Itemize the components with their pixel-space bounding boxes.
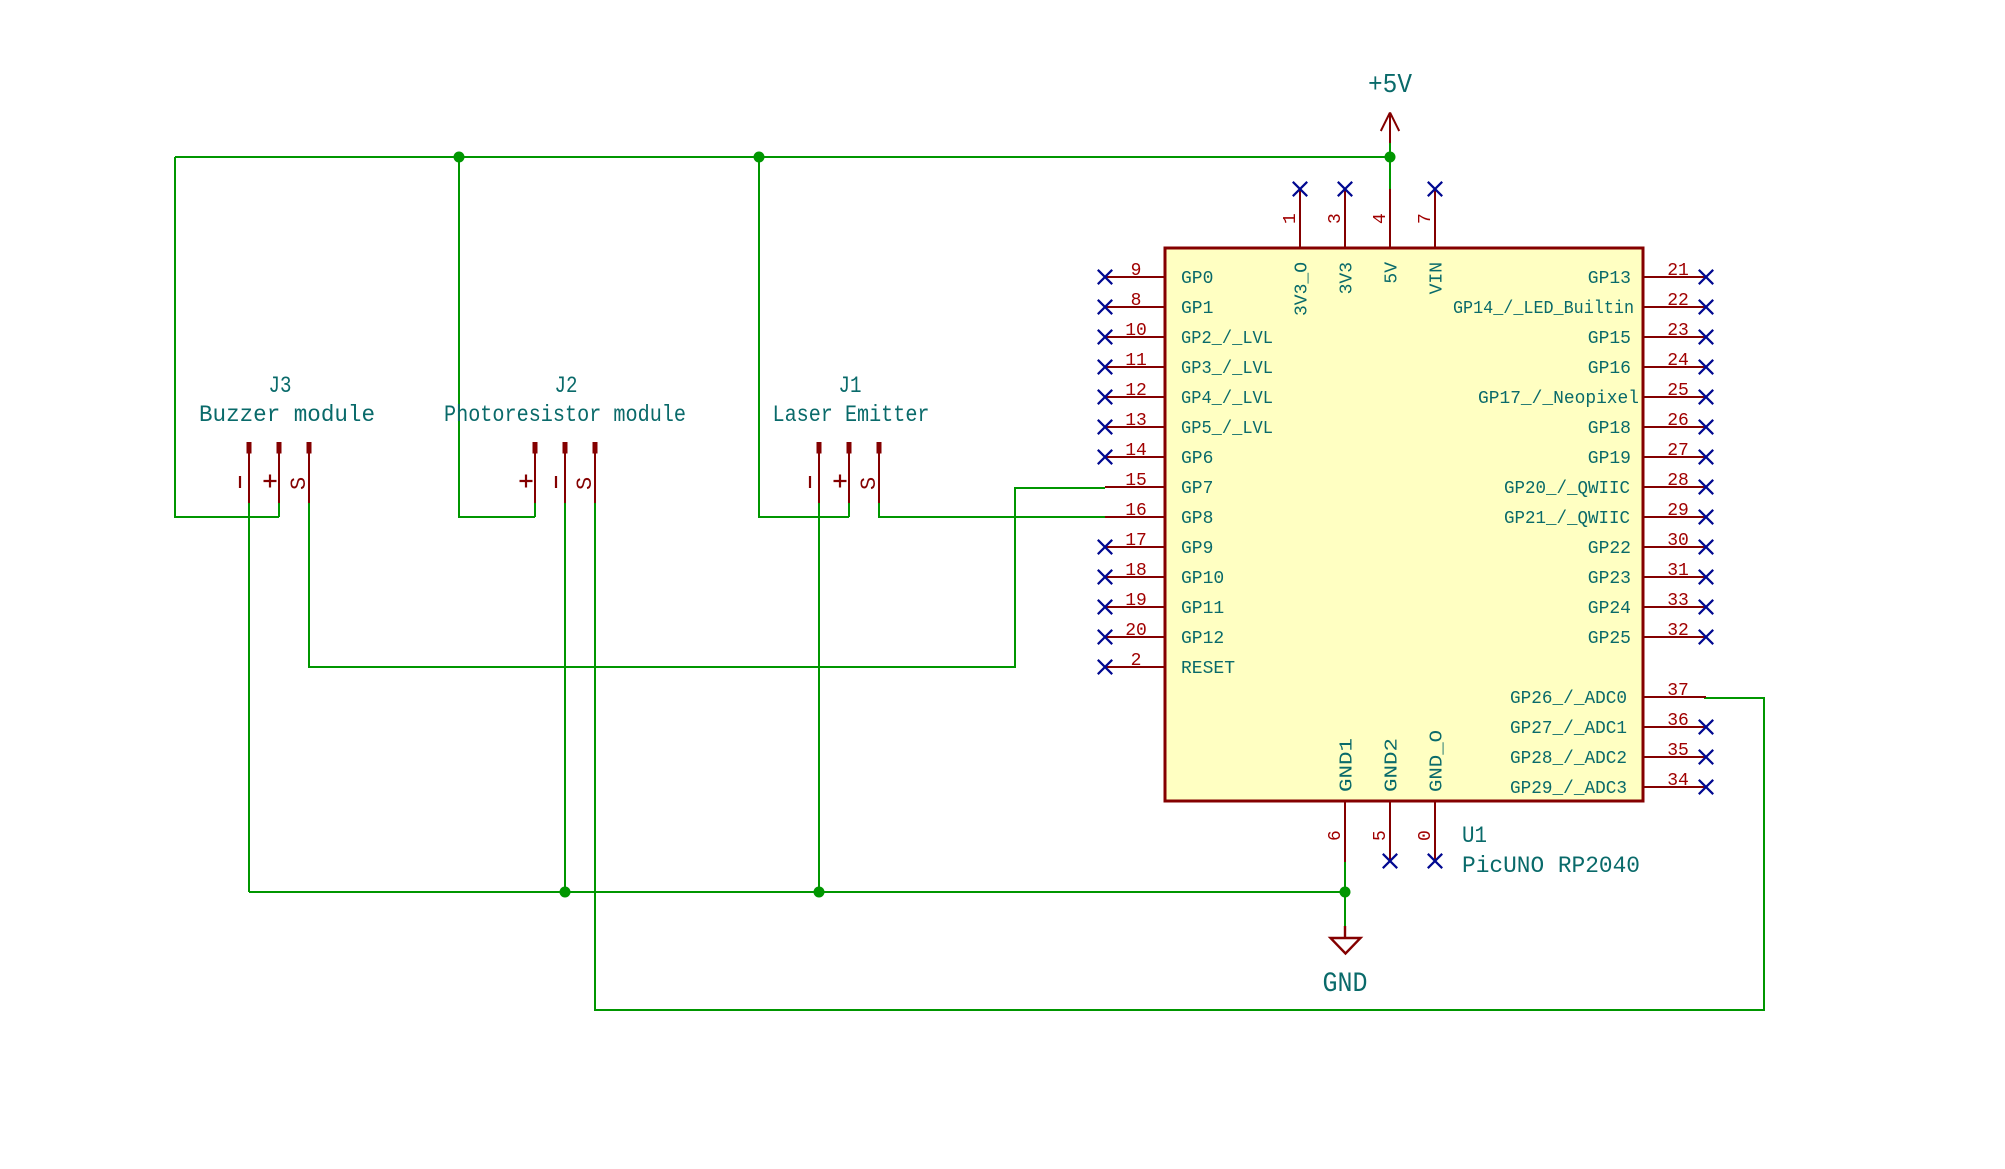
svg-text:3: 3 xyxy=(1326,213,1346,224)
svg-text:15: 15 xyxy=(1125,471,1147,491)
svg-text:30: 30 xyxy=(1667,531,1689,551)
power symbol GND xyxy=(1323,926,1368,1000)
svg-text:13: 13 xyxy=(1125,411,1147,431)
svg-text:16: 16 xyxy=(1125,501,1147,521)
svg-text:GP16: GP16 xyxy=(1588,359,1631,379)
pin 2 RESET (left) xyxy=(1098,651,1235,679)
svg-text:GP23: GP23 xyxy=(1588,569,1631,589)
svg-text:10: 10 xyxy=(1125,321,1147,341)
connector J1 pin - xyxy=(810,442,822,503)
svg-text:GP17_/_Neopixel: GP17_/_Neopixel xyxy=(1478,389,1639,409)
svg-text:Photoresistor module: Photoresistor module xyxy=(444,402,686,428)
svg-text:J3: J3 xyxy=(269,373,292,399)
svg-text:GP27_/_ADC1: GP27_/_ADC1 xyxy=(1510,719,1627,739)
svg-text:24: 24 xyxy=(1667,351,1689,371)
pin 27 GP19 (right) xyxy=(1588,441,1713,469)
power symbol +5V xyxy=(1368,71,1413,143)
svg-text:Laser Emitter: Laser Emitter xyxy=(773,402,930,428)
pin 19 GP11 (left) xyxy=(1098,591,1224,619)
svg-text:5V: 5V xyxy=(1383,262,1403,284)
wire J1 S to GP8 xyxy=(879,503,1105,517)
junction F xyxy=(1340,887,1351,898)
pin 25 GP17_/_Neopixel (right) xyxy=(1478,381,1713,409)
connector J3 pin S xyxy=(287,442,312,503)
svg-text:1: 1 xyxy=(1281,213,1301,224)
pin 18 GP10 (left) xyxy=(1098,561,1224,589)
svg-text:GP22: GP22 xyxy=(1588,539,1631,559)
svg-text:GND: GND xyxy=(1323,969,1368,1000)
svg-text:GP28_/_ADC2: GP28_/_ADC2 xyxy=(1510,749,1627,769)
svg-text:GP0: GP0 xyxy=(1181,269,1213,289)
svg-text:17: 17 xyxy=(1125,531,1147,551)
svg-text:GND_O: GND_O xyxy=(1428,730,1448,792)
svg-text:6: 6 xyxy=(1326,830,1346,841)
svg-text:28: 28 xyxy=(1667,471,1689,491)
pin 10 GP2_/_LVL (left) xyxy=(1098,321,1273,349)
svg-text:25: 25 xyxy=(1667,381,1689,401)
pin 11 GP3_/_LVL (left) xyxy=(1098,351,1273,379)
pin 33 GP24 (right) xyxy=(1588,591,1713,619)
connector J3 pin - xyxy=(240,442,252,503)
svg-text:GP20_/_QWIIC: GP20_/_QWIIC xyxy=(1504,479,1630,499)
pin 5 GND2 (bottom) xyxy=(1371,738,1403,868)
connector J1 pin S xyxy=(857,442,882,503)
pin 30 GP22 (right) xyxy=(1588,531,1713,559)
svg-text:11: 11 xyxy=(1125,351,1147,371)
svg-text:GP4_/_LVL: GP4_/_LVL xyxy=(1181,389,1273,409)
svg-text:9: 9 xyxy=(1131,261,1142,281)
connector J3 pin + xyxy=(264,442,282,503)
pin 20 GP12 (left) xyxy=(1098,621,1224,649)
pin 9 GP0 (left) xyxy=(1098,261,1214,289)
pin 6 GND1 (bottom) xyxy=(1326,738,1358,862)
svg-text:GP29_/_ADC3: GP29_/_ADC3 xyxy=(1510,779,1627,799)
svg-text:3V3_O: 3V3_O xyxy=(1293,262,1313,316)
svg-text:+5V: +5V xyxy=(1368,71,1413,101)
svg-text:GP18: GP18 xyxy=(1588,419,1631,439)
connector J2 pin S xyxy=(573,442,598,503)
svg-text:GP9: GP9 xyxy=(1181,539,1213,559)
junction B xyxy=(754,152,765,163)
svg-text:PicUNO RP2040: PicUNO RP2040 xyxy=(1462,853,1640,879)
pin 28 GP20_/_QWIIC (right) xyxy=(1504,471,1713,499)
svg-text:GP10: GP10 xyxy=(1181,569,1224,589)
pin 4 5V (top) xyxy=(1371,189,1403,284)
pin 15 GP7 (left) xyxy=(1105,471,1213,499)
pin 23 GP15 (right) xyxy=(1588,321,1713,349)
pin 22 GP14_/_LED_Builtin (right) xyxy=(1453,291,1713,319)
connector J2 pin - xyxy=(556,442,568,503)
connector J1 pin + xyxy=(834,442,852,503)
svg-text:0: 0 xyxy=(1416,830,1436,841)
svg-text:32: 32 xyxy=(1667,621,1689,641)
pin 16 GP8 (left) xyxy=(1105,501,1213,529)
pin 17 GP9 (left) xyxy=(1098,531,1214,559)
svg-text:27: 27 xyxy=(1667,441,1689,461)
svg-text:26: 26 xyxy=(1667,411,1689,431)
pin 37 GP26_/_ADC0 (right) xyxy=(1510,681,1706,709)
svg-text:18: 18 xyxy=(1125,561,1147,581)
svg-text:GP12: GP12 xyxy=(1181,629,1224,649)
svg-text:20: 20 xyxy=(1125,621,1147,641)
wire J2 plus riser xyxy=(459,157,535,517)
wire +5V top rail xyxy=(175,156,1390,158)
svg-text:5: 5 xyxy=(1371,830,1391,841)
svg-text:29: 29 xyxy=(1667,501,1689,521)
pin 21 GP13 (right) xyxy=(1588,261,1713,289)
svg-text:34: 34 xyxy=(1667,771,1689,791)
svg-text:37: 37 xyxy=(1667,681,1689,701)
svg-text:GND1: GND1 xyxy=(1338,738,1358,792)
svg-text:12: 12 xyxy=(1125,381,1147,401)
svg-text:GP13: GP13 xyxy=(1588,269,1631,289)
wire J2 minus drop xyxy=(564,503,566,892)
pin 13 GP5_/_LVL (left) xyxy=(1098,411,1273,439)
pin 1 3V3_O (top) xyxy=(1281,182,1313,316)
wire J3 S to GP7 xyxy=(309,488,1105,667)
svg-text:4: 4 xyxy=(1371,213,1391,224)
pin 32 GP25 (right) xyxy=(1588,621,1713,649)
pin 34 GP29_/_ADC3 (right) xyxy=(1510,771,1713,799)
svg-text:GP5_/_LVL: GP5_/_LVL xyxy=(1181,419,1273,439)
svg-text:GP25: GP25 xyxy=(1588,629,1631,649)
pin 14 GP6 (left) xyxy=(1098,441,1214,469)
svg-text:GP8: GP8 xyxy=(1181,509,1213,529)
pin 24 GP16 (right) xyxy=(1588,351,1713,379)
pin 7 VIN (top) xyxy=(1416,182,1448,295)
svg-text:33: 33 xyxy=(1667,591,1689,611)
svg-text:VIN: VIN xyxy=(1428,262,1448,294)
pin 12 GP4_/_LVL (left) xyxy=(1098,381,1273,409)
svg-text:3V3: 3V3 xyxy=(1338,262,1358,294)
svg-text:S: S xyxy=(857,477,882,490)
junction D xyxy=(560,887,571,898)
pin 31 GP23 (right) xyxy=(1588,561,1713,589)
wire GND1 to GND symbol xyxy=(1344,862,1346,926)
svg-text:U1: U1 xyxy=(1462,823,1487,849)
pin 8 GP1 (left) xyxy=(1098,291,1214,319)
wire J2 S to ADC0 xyxy=(595,503,1764,1010)
pin 26 GP18 (right) xyxy=(1588,411,1713,439)
svg-text:S: S xyxy=(287,477,312,490)
wire J1 minus drop xyxy=(818,503,820,892)
svg-text:GP26_/_ADC0: GP26_/_ADC0 xyxy=(1510,689,1627,709)
wire J3 plus riser xyxy=(175,157,279,517)
junction E xyxy=(814,887,825,898)
svg-text:GP15: GP15 xyxy=(1588,329,1631,349)
connector J2 pin + xyxy=(520,442,538,503)
svg-text:J1: J1 xyxy=(839,373,862,399)
svg-text:GP2_/_LVL: GP2_/_LVL xyxy=(1181,329,1273,349)
pin 3 3V3 (top) xyxy=(1326,182,1358,295)
svg-text:GP14_/_LED_Builtin: GP14_/_LED_Builtin xyxy=(1453,299,1634,319)
wire J1 plus stub xyxy=(848,503,850,517)
svg-text:GND2: GND2 xyxy=(1383,738,1403,792)
svg-text:GP21_/_QWIIC: GP21_/_QWIIC xyxy=(1504,509,1630,529)
svg-text:GP24: GP24 xyxy=(1588,599,1631,619)
pin 36 GP27_/_ADC1 (right) xyxy=(1510,711,1713,739)
svg-text:GP7: GP7 xyxy=(1181,479,1213,499)
wire J3 plus stub xyxy=(278,503,280,517)
svg-text:GP6: GP6 xyxy=(1181,449,1213,469)
svg-text:14: 14 xyxy=(1125,441,1147,461)
svg-text:GP19: GP19 xyxy=(1588,449,1631,469)
svg-text:7: 7 xyxy=(1416,213,1436,224)
svg-text:GP1: GP1 xyxy=(1181,299,1213,319)
wire +5V to VBUS pin xyxy=(1389,143,1391,190)
pin 0 GND_O (bottom) xyxy=(1416,730,1448,868)
wire J3 minus drop xyxy=(248,503,250,892)
pin 35 GP28_/_ADC2 (right) xyxy=(1510,741,1713,769)
svg-text:19: 19 xyxy=(1125,591,1147,611)
svg-text:J2: J2 xyxy=(555,373,578,399)
svg-text:GP11: GP11 xyxy=(1181,599,1224,619)
svg-text:31: 31 xyxy=(1667,561,1689,581)
svg-text:8: 8 xyxy=(1131,291,1142,311)
svg-text:36: 36 xyxy=(1667,711,1689,731)
wire J1 plus riser xyxy=(759,157,849,517)
svg-text:21: 21 xyxy=(1667,261,1689,281)
svg-text:Buzzer module: Buzzer module xyxy=(199,402,375,428)
svg-text:RESET: RESET xyxy=(1181,659,1235,679)
svg-text:2: 2 xyxy=(1131,651,1142,671)
U1 PicUNO RP2040 body xyxy=(1165,248,1643,801)
junction A xyxy=(454,152,465,163)
wire J2 plus stub xyxy=(534,503,536,517)
svg-text:GP3_/_LVL: GP3_/_LVL xyxy=(1181,359,1273,379)
wire GND rail xyxy=(249,891,1345,893)
pin 29 GP21_/_QWIIC (right) xyxy=(1504,501,1713,529)
junction C xyxy=(1385,152,1396,163)
svg-text:23: 23 xyxy=(1667,321,1689,341)
svg-text:22: 22 xyxy=(1667,291,1689,311)
svg-text:35: 35 xyxy=(1667,741,1689,761)
svg-text:S: S xyxy=(573,477,598,490)
